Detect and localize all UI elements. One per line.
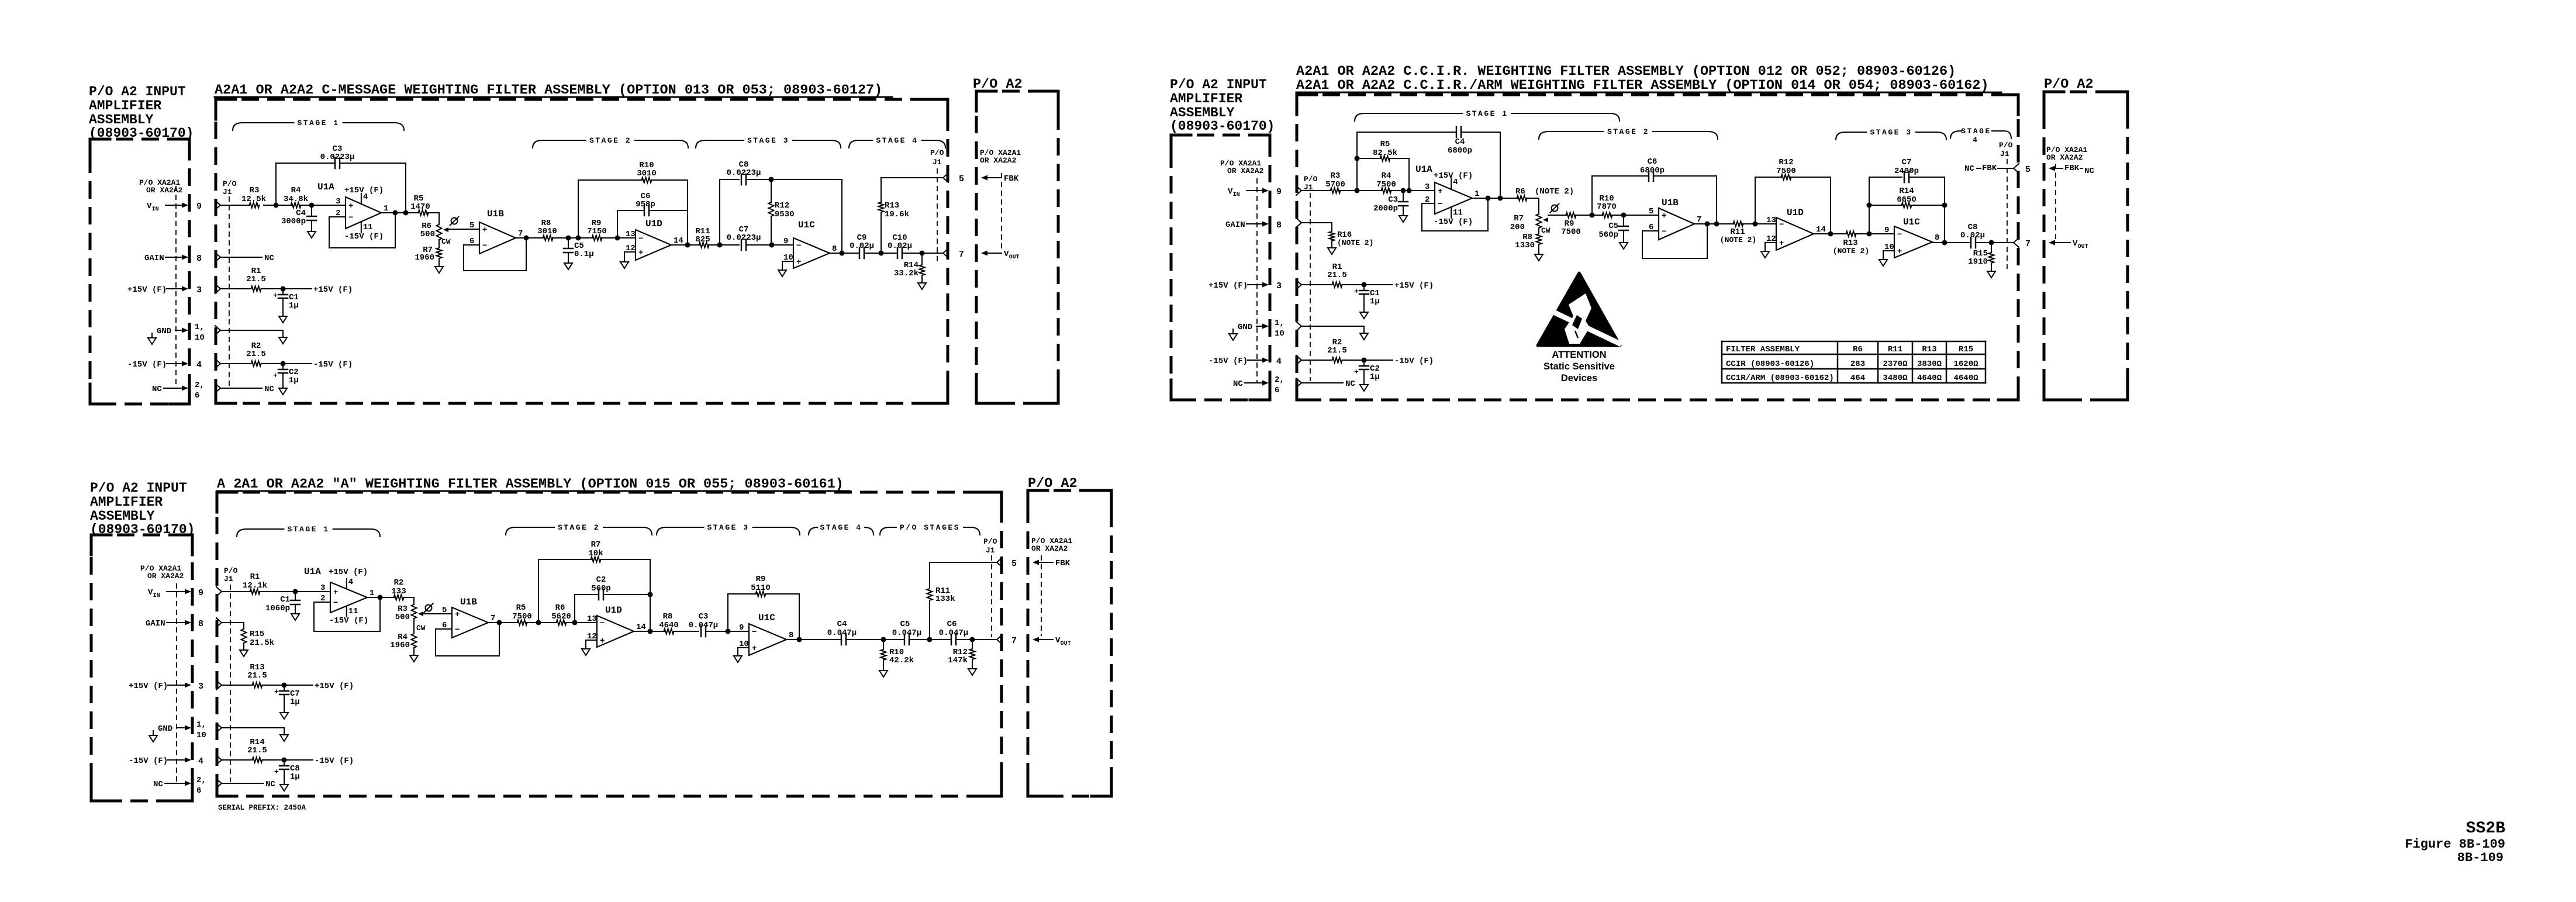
s3 wire node C into U1D [566, 620, 597, 625]
svg-text:C4: C4 [837, 620, 847, 629]
s2 wire U1B unity feedback loop [1642, 224, 1707, 258]
svg-text:J1: J1 [2000, 150, 2009, 158]
s2 wire U1B output row [1694, 222, 1734, 227]
svg-text:R2: R2 [394, 578, 404, 587]
svg-text:-15V (F): -15V (F) [1394, 357, 1434, 366]
svg-text:3: 3 [1425, 182, 1429, 192]
s2 node VOUT [2049, 239, 2088, 250]
s1 wire node B into U1A [300, 203, 346, 208]
s2 node +15V(F) pin 3 [1208, 281, 1282, 291]
s2 wire node A [1340, 188, 1382, 193]
svg-text:19.6k: 19.6k [885, 210, 909, 219]
svg-text:21.5: 21.5 [1327, 346, 1347, 355]
svg-text:−: − [752, 628, 757, 637]
svg-text:3: 3 [198, 682, 203, 692]
svg-text:1,: 1, [196, 720, 206, 730]
s1 resistor R2 21.5 on -15V row [215, 341, 353, 369]
svg-text:+: + [1354, 287, 1359, 296]
svg-text:NC: NC [2084, 167, 2094, 176]
svg-text:J1: J1 [933, 158, 942, 167]
svg-text:NC: NC [1964, 164, 1974, 174]
svg-text:-15V (F): -15V (F) [1208, 357, 1248, 366]
s1 wire output node to pin7 [902, 251, 943, 256]
s1 connector label P/O J1 right [930, 148, 944, 262]
s3 potentiometer R3 500 with wiper [395, 604, 426, 634]
s3 wire U1C output row [786, 637, 841, 642]
svg-text:283: 283 [1850, 360, 1865, 369]
svg-text:+: + [348, 202, 353, 211]
svg-text:+: + [1662, 212, 1666, 221]
svg-text:3000p: 3000p [281, 217, 306, 226]
svg-text:CW: CW [416, 624, 426, 633]
s3 wire node E [846, 637, 904, 642]
svg-text:-15V (F): -15V (F) [329, 616, 368, 625]
svg-text:+15V (F): +15V (F) [1394, 281, 1434, 291]
svg-text:5: 5 [1011, 559, 1017, 569]
svg-text:464: 464 [1850, 374, 1865, 383]
svg-text:R3: R3 [250, 186, 260, 195]
svg-text:4: 4 [1973, 136, 1977, 144]
s1 connector pin 7 at edge [943, 248, 964, 260]
svg-text:+: + [1779, 239, 1784, 248]
svg-text:STAGE: STAGE [1961, 127, 1991, 136]
svg-text:IN: IN [152, 206, 159, 213]
s3 wire U1B output row [488, 620, 517, 625]
svg-text:A2A1 OR A2A2 C.C.I.R./ARM WEIG: A2A1 OR A2A2 C.C.I.R./ARM WEIGHTING FILT… [1296, 78, 1989, 94]
s2 resistor R5 82.5k bypass [1355, 140, 1410, 191]
svg-text:A 2A1 OR A2A2 "A" WEIGHTING FI: A 2A1 OR A2A2 "A" WEIGHTING FILTER ASSEM… [217, 476, 844, 492]
svg-text:R13: R13 [885, 201, 899, 210]
svg-text:C1: C1 [280, 595, 290, 604]
svg-text:4640Ω: 4640Ω [1953, 374, 1978, 383]
s2 resistor R2 21.5 on -15V row [1296, 338, 1434, 366]
s1 wire U1A output row [381, 210, 419, 216]
s1 resistor R14 33.2k to ground [894, 253, 926, 289]
svg-text:J1: J1 [223, 188, 232, 196]
svg-text:7: 7 [491, 614, 495, 623]
svg-text:9530: 9530 [775, 210, 795, 219]
svg-text:R3: R3 [1331, 171, 1341, 181]
svg-text:2370Ω: 2370Ω [1883, 360, 1908, 369]
svg-text:R12: R12 [775, 201, 789, 210]
s2 op-amp U1A [1415, 164, 1479, 227]
svg-text:12.5k: 12.5k [241, 195, 266, 204]
s1 ground below R7 [435, 267, 443, 273]
s1 resistor R9 7150 [587, 219, 607, 241]
svg-text:500: 500 [420, 230, 435, 239]
svg-text:SERIAL PREFIX: 2450A: SERIAL PREFIX: 2450A [218, 804, 306, 812]
svg-text:1,: 1, [195, 323, 205, 332]
svg-text:STAGE 1: STAGE 1 [1466, 109, 1508, 118]
svg-text:IN: IN [1233, 192, 1240, 198]
svg-text:NC: NC [153, 780, 163, 789]
svg-text:+15V (F): +15V (F) [127, 285, 167, 295]
figure footer text [2405, 820, 2505, 865]
svg-text:+: + [1438, 187, 1442, 196]
svg-text:21.5: 21.5 [247, 746, 267, 755]
svg-text:1: 1 [384, 204, 388, 213]
s3 connector pin 7 at edge [997, 635, 1017, 646]
svg-text:NC: NC [264, 254, 274, 263]
s3 connector label P/O J1 right [983, 537, 997, 637]
svg-text:13: 13 [626, 230, 636, 239]
s1 node VIN pin 9 [147, 202, 202, 213]
s3 op-amp U1A [304, 566, 374, 625]
s2 filter assembly value table [1722, 341, 1985, 383]
s2 resistor R4 7500 [1376, 171, 1396, 193]
s3 serial prefix note [218, 804, 306, 812]
svg-text:21.5: 21.5 [247, 671, 267, 680]
s1 wire node E [709, 243, 739, 248]
svg-text:21.5: 21.5 [246, 350, 266, 359]
svg-text:R1: R1 [250, 572, 260, 582]
s3 op-amp U1C [738, 613, 793, 655]
svg-text:1μ: 1μ [289, 376, 299, 385]
svg-text:R5: R5 [516, 603, 526, 613]
svg-text:−: − [796, 241, 801, 251]
svg-text:R15: R15 [250, 630, 264, 639]
svg-text:9: 9 [1884, 226, 1889, 235]
svg-text:9: 9 [198, 588, 203, 598]
svg-text:3010: 3010 [537, 227, 557, 236]
svg-text:12: 12 [626, 244, 636, 253]
svg-text:FBK: FBK [1004, 174, 1019, 184]
s1 net label P/O XA2A1 OR XA2A2 [139, 178, 183, 195]
s1 wire node G [864, 251, 897, 256]
svg-text:2,: 2, [1275, 375, 1284, 385]
s3 adjustment symbol [424, 604, 433, 613]
s2 wire VIN row into R3 [1296, 186, 1331, 195]
svg-text:11: 11 [1453, 208, 1463, 217]
s3 resistor R4 1960 [390, 633, 416, 655]
s1 resistor R11 825 [695, 227, 710, 248]
s2 enclosure P/O A2 INPUT AMPLIFIER ASSEMBLY (08903-60170) [1170, 77, 1275, 400]
svg-text:P/O: P/O [1999, 141, 2013, 150]
s2 capacitor C8 0.02u [1960, 223, 1985, 248]
s2 wire U1C output row [1932, 240, 1969, 246]
svg-text:5110: 5110 [751, 583, 771, 593]
svg-text:8: 8 [1276, 220, 1282, 230]
svg-text:-15V (F): -15V (F) [127, 360, 167, 369]
s2 wire U1A output row [1472, 196, 1517, 201]
svg-text:8: 8 [832, 244, 837, 254]
svg-text:OR XA2A2: OR XA2A2 [147, 572, 184, 580]
svg-text:STAGE 3: STAGE 3 [747, 136, 789, 145]
s2 node -15V(F) pin 4 [1208, 357, 1282, 367]
svg-text:12: 12 [1766, 234, 1776, 244]
s1 enclosure A2A1 OR A2A2 C-MESSAGE WEIGHTING FILTER ASSEMBLY [215, 82, 948, 403]
svg-text:−: − [638, 234, 643, 244]
s2 node NC pins 2,6 [1233, 375, 1284, 395]
s1 capacitor C4 3000p to ground [281, 205, 316, 238]
svg-text:(08903-60170): (08903-60170) [90, 522, 195, 537]
s3 wire VIN row into R1 [216, 587, 250, 596]
svg-text:5700: 5700 [1325, 180, 1345, 189]
svg-text:+15V (F): +15V (F) [315, 682, 354, 691]
svg-text:4640Ω: 4640Ω [1917, 374, 1942, 383]
svg-text:J1: J1 [224, 575, 233, 583]
s2 capacitor C-bypass minus on -15V row [1354, 360, 1380, 391]
s2 capacitor C4 6800p feedback [1357, 127, 1500, 198]
svg-text:1μ: 1μ [290, 772, 300, 782]
svg-text:+: + [1354, 368, 1359, 376]
s3 dashed connector boundary line [176, 583, 177, 783]
s1 potentiometer R6 500 with wiper [420, 222, 451, 248]
svg-text:P/O: P/O [223, 179, 237, 188]
svg-text:1μ: 1μ [290, 697, 300, 707]
svg-text:R13: R13 [1922, 345, 1936, 354]
svg-text:+: + [796, 258, 801, 267]
s3 capacitor C1 1060p to ground [265, 592, 300, 620]
s2 adjustment symbol [1551, 204, 1559, 213]
s3 capacitor C6 0.047u [939, 620, 968, 645]
s2 resistor R12 7500 feedback [1755, 158, 1831, 234]
s2 op-amp U1B [1648, 198, 1701, 240]
s1 wire node F into U1C [746, 243, 793, 248]
s3 ground at U1C pin 10 [734, 648, 742, 662]
s1 wire VIN row into R3 [215, 201, 250, 210]
s2 wire node D into U1B [1612, 213, 1659, 218]
svg-text:OUT: OUT [1061, 641, 1071, 647]
s2 wire NC bottom row [1296, 378, 1355, 389]
s3 ground at U1D pin 12 [582, 640, 590, 655]
svg-text:+: + [455, 610, 460, 620]
s2 stage 3 bracket [1836, 128, 1946, 140]
svg-text:+15V (F): +15V (F) [129, 682, 168, 691]
s3 resistor R11 133k feedback to pin5 [927, 562, 997, 640]
s1 net label P/O XA2A1 OR XA2A2 right box [980, 148, 1021, 250]
s3 resistor R8 4640 [659, 612, 679, 634]
svg-text:A2A1 OR A2A2 C.C.I.R. WEIGHTIN: A2A1 OR A2A2 C.C.I.R. WEIGHTING FILTER A… [1296, 64, 1956, 80]
svg-text:(08903-60170): (08903-60170) [1170, 119, 1275, 134]
s1 wire U1C output row [830, 251, 859, 256]
s2 resistor R13 (NOTE 2) [1833, 231, 1869, 256]
s3 resistor R5 7500 [512, 603, 532, 625]
svg-text:10: 10 [1275, 329, 1284, 338]
s1 node NC pins 2,6 [152, 381, 205, 400]
svg-text:OUT: OUT [1009, 254, 1020, 261]
s2 resistor R6 (NOTE 2) [1515, 187, 1574, 201]
svg-text:U1B: U1B [487, 209, 504, 219]
s3 wire NC bottom row [216, 779, 275, 789]
svg-text:SS2B: SS2B [2466, 820, 2505, 838]
s2 resistor R8 1330 [1515, 233, 1541, 254]
svg-text:P/O A2: P/O A2 [2044, 77, 2094, 92]
svg-text:P/O STAGES: P/O STAGES [900, 523, 960, 532]
s3 resistor R15 21.5k on GAIN row [216, 618, 274, 656]
s2 dashed connector boundary line [1256, 178, 1258, 383]
s3 capacitor C4 0.047u [827, 620, 857, 645]
svg-text:(NOTE 2): (NOTE 2) [1720, 236, 1756, 244]
svg-text:U1A: U1A [1415, 164, 1432, 175]
s3 wire wiper to U1B [423, 613, 452, 614]
svg-text:4: 4 [196, 360, 202, 370]
s3 wire to potentiometer [403, 597, 414, 604]
svg-text:0.047μ: 0.047μ [939, 628, 968, 638]
svg-text:+: + [274, 687, 279, 696]
svg-text:P/O: P/O [1304, 175, 1318, 184]
s1 resistor R10 3010 feedback [578, 161, 688, 245]
svg-text:560p: 560p [591, 584, 611, 593]
svg-text:P/O A2 INPUT: P/O A2 INPUT [1170, 77, 1267, 92]
svg-text:U1D: U1D [1787, 208, 1804, 218]
s1 stage 3 bracket [696, 136, 841, 148]
svg-text:6: 6 [195, 391, 199, 400]
svg-text:STAGE 4: STAGE 4 [820, 523, 862, 532]
svg-text:8: 8 [196, 254, 202, 264]
svg-text:IN: IN [153, 593, 160, 599]
svg-text:V: V [1055, 636, 1061, 645]
s2 resistor R14 6650 feedback [1867, 186, 1947, 208]
s3 op-amp U1B [441, 597, 495, 638]
s3 wire GND row to ground [216, 723, 288, 741]
svg-text:C2: C2 [596, 575, 606, 585]
s2 connector pin 5 at edge [2014, 164, 2031, 175]
svg-text:5: 5 [469, 221, 474, 230]
s1 wire U1D output row [671, 243, 699, 248]
svg-text:1060p: 1060p [265, 604, 290, 613]
s1 op-amp U1C [782, 220, 837, 268]
svg-text:A2A1 OR A2A2 C-MESSAGE WEIGHTI: A2A1 OR A2A2 C-MESSAGE WEIGHTING FILTER … [215, 82, 882, 98]
svg-text:8: 8 [789, 631, 793, 640]
svg-text:Devices: Devices [1561, 373, 1597, 383]
svg-text:147k: 147k [948, 656, 968, 665]
svg-text:82.5k: 82.5k [1373, 148, 1397, 158]
svg-text:3: 3 [196, 285, 202, 295]
s3 resistor R13 21.5 on +15V row [216, 663, 354, 691]
s2 wire node F into U1C [1856, 231, 1894, 237]
svg-text:FBK: FBK [1982, 164, 1997, 173]
svg-text:4640: 4640 [659, 621, 679, 630]
svg-text:6800p: 6800p [1640, 166, 1665, 175]
svg-text:CW: CW [441, 237, 451, 246]
svg-text:Figure 8B-109: Figure 8B-109 [2405, 837, 2505, 852]
svg-text:500: 500 [395, 613, 410, 622]
svg-text:V: V [148, 588, 153, 597]
svg-text:6: 6 [1275, 386, 1279, 395]
svg-text:(NOTE 2): (NOTE 2) [1337, 239, 1373, 247]
svg-text:-15V (F): -15V (F) [344, 232, 384, 241]
svg-text:1,: 1, [1275, 319, 1284, 328]
s1 capacitor C7 0.0223u [727, 225, 761, 250]
svg-text:AMPLIFIER: AMPLIFIER [1170, 91, 1242, 106]
svg-text:R4: R4 [291, 186, 301, 195]
svg-text:U1C: U1C [758, 613, 775, 623]
s1 capacitor C8 0.0223u feedback [720, 160, 842, 253]
svg-text:1960: 1960 [390, 641, 410, 650]
s3 wire U1A unity feedback loop [314, 597, 380, 631]
svg-text:P/O: P/O [983, 537, 997, 546]
svg-text:3480Ω: 3480Ω [1883, 374, 1908, 383]
svg-text:CC1R/ARM (08903-60162): CC1R/ARM (08903-60162) [1726, 374, 1834, 383]
svg-text:+: + [752, 644, 757, 654]
s3 resistor R1 12.1k [243, 572, 267, 595]
svg-text:U1D: U1D [645, 219, 662, 229]
svg-text:1470: 1470 [410, 202, 430, 212]
svg-text:C6: C6 [947, 620, 957, 629]
s1 resistor R1 21.5 on +15V row [215, 267, 353, 295]
s2 wire wiper row [1548, 215, 1566, 216]
svg-text:0.0223μ: 0.0223μ [727, 168, 761, 178]
s1 resistor R5 1470 [410, 194, 430, 216]
s3 wire node B [527, 620, 557, 625]
s3 resistor R6 5620 [551, 603, 571, 625]
s3 stage 1 bracket [237, 525, 380, 537]
s1 node GAIN pin 8 [144, 254, 202, 264]
s1 wire NC bottom row [215, 383, 274, 394]
svg-text:−: − [333, 599, 338, 608]
s3 capacitor C-bypass minus on -15V row [274, 760, 300, 791]
svg-text:33.2k: 33.2k [894, 269, 918, 278]
svg-text:14: 14 [674, 236, 683, 246]
svg-text:200: 200 [1510, 223, 1525, 232]
svg-text:STAGE 3: STAGE 3 [1870, 128, 1912, 137]
s2 wire node E into U1D [1743, 222, 1776, 227]
svg-text:R6: R6 [1515, 187, 1525, 196]
s1 resistor R12 9530 feedback [769, 179, 795, 245]
s3 resistor R14 21.5 on -15V row [216, 738, 354, 766]
svg-text:FILTER ASSEMBLY: FILTER ASSEMBLY [1726, 345, 1800, 354]
svg-text:+: + [1897, 247, 1902, 257]
s1 ground at U1C pin 10 [778, 261, 786, 277]
s2 resistor R1 21.5 on +15V row [1296, 262, 1434, 291]
svg-text:560p: 560p [1598, 230, 1618, 240]
s3 ground below R4 [410, 655, 418, 662]
svg-text:1910: 1910 [1968, 257, 1988, 267]
s3 enclosure A 2A1 OR A2A2 "A" WEIGHTING FILTER ASSEMBLY [217, 476, 1002, 796]
s3 wire node D into U1C [726, 629, 750, 634]
svg-text:14: 14 [1816, 225, 1826, 234]
svg-text:4: 4 [348, 578, 353, 587]
svg-text:−: − [1438, 200, 1442, 209]
svg-text:R7: R7 [1514, 214, 1524, 223]
svg-text:7870: 7870 [1597, 202, 1617, 212]
s2 resistor R16 (NOTE 2) on GAIN row [1296, 218, 1373, 254]
svg-text:R14: R14 [1899, 186, 1914, 196]
s2 resistor R9 7500 [1561, 213, 1581, 237]
s3 node VIN pin 9 [148, 588, 203, 599]
s3 node -15V(F) pin 4 [129, 756, 203, 766]
svg-text:STAGE 2: STAGE 2 [1607, 127, 1649, 136]
svg-text:R15: R15 [1959, 345, 1973, 354]
svg-text:3: 3 [336, 197, 340, 206]
s1 resistor R4 34.8k [284, 186, 308, 208]
s2 op-amp U1D [1765, 208, 1826, 250]
s3 stage 2 bracket [506, 523, 652, 535]
svg-text:13: 13 [1766, 216, 1776, 225]
svg-text:−: − [1897, 230, 1902, 240]
svg-text:GAIN: GAIN [144, 254, 164, 263]
svg-text:+: + [274, 768, 279, 776]
svg-text:−: − [1779, 220, 1784, 230]
svg-text:GND: GND [158, 724, 172, 734]
s1 connector pin 5 at edge [943, 173, 964, 184]
svg-text:958p: 958p [636, 200, 655, 209]
svg-text:0.1μ: 0.1μ [574, 250, 594, 259]
s3 node VOUT [1033, 636, 1071, 647]
svg-text:+15V (F): +15V (F) [1434, 171, 1473, 181]
s1 wire wiper to U1B [448, 229, 479, 230]
svg-text:R8: R8 [663, 612, 673, 621]
s1 enclosure P/O A2 (right) [973, 77, 1058, 403]
svg-text:P/O: P/O [224, 566, 238, 575]
svg-text:Static Sensitive: Static Sensitive [1543, 361, 1615, 372]
svg-text:OR XA2A2: OR XA2A2 [980, 156, 1017, 165]
s2 wire node B into U1A [1391, 188, 1435, 193]
svg-text:0.02μ: 0.02μ [850, 241, 874, 251]
svg-text:8B-109: 8B-109 [2457, 851, 2504, 865]
s1 node FBK [981, 174, 1019, 184]
